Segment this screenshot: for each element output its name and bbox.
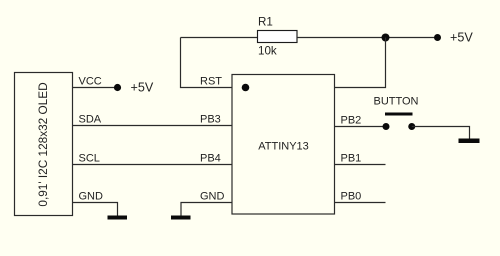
ground symbol (button) bbox=[459, 139, 480, 144]
wire junction down to IC VCC pin bbox=[335, 38, 386, 88]
svg-text:RST: RST bbox=[200, 75, 222, 87]
svg-text:ATTINY13: ATTINY13 bbox=[258, 140, 309, 152]
IC U1 pin-1 marker dot bbox=[242, 84, 250, 92]
wire IC GND pin to ground bbox=[181, 203, 232, 216]
svg-text:SDA: SDA bbox=[79, 113, 102, 125]
svg-text:PB2: PB2 bbox=[341, 114, 362, 126]
svg-text:PB0: PB0 bbox=[341, 190, 362, 202]
+5V terminal dot (top right) bbox=[434, 34, 441, 41]
button S1 actuator bar bbox=[385, 113, 413, 116]
wire PB1 stub bbox=[335, 164, 386, 166]
svg-text:PB1: PB1 bbox=[341, 152, 362, 164]
wire SDA to PB3 bbox=[73, 125, 233, 127]
wire top rail left of R1 bbox=[181, 37, 258, 39]
ground symbol (OLED) bbox=[108, 216, 128, 220]
wire OLED GND to ground bbox=[73, 203, 118, 216]
svg-text:10k: 10k bbox=[258, 44, 277, 57]
ground symbol (IC) bbox=[171, 216, 191, 220]
svg-text:PB4: PB4 bbox=[200, 152, 221, 164]
wire PB0 stub bbox=[335, 202, 386, 204]
svg-text:+5V: +5V bbox=[131, 81, 154, 95]
wire top rail right of R1 to +5V bbox=[297, 37, 438, 39]
svg-text:VCC: VCC bbox=[79, 75, 102, 87]
button S1 left contact dot bbox=[383, 123, 390, 130]
wire PB2 to button left contact bbox=[335, 126, 387, 128]
svg-text:BUTTON: BUTTON bbox=[373, 95, 418, 107]
+5V terminal dot (left) bbox=[114, 84, 121, 91]
wire SCL to PB4 bbox=[73, 164, 233, 166]
wire OLED VCC to +5V terminal bbox=[73, 87, 118, 89]
OLED display module body bbox=[15, 73, 73, 216]
IC U1 ATTINY13 body bbox=[232, 75, 335, 215]
button S1 right contact dot bbox=[408, 123, 415, 130]
svg-text:GND: GND bbox=[200, 190, 225, 202]
svg-text:+5V: +5V bbox=[450, 31, 473, 45]
junction node dot on +5V rail bbox=[382, 34, 390, 42]
resistor R1 body bbox=[258, 31, 298, 43]
svg-text:SCL: SCL bbox=[79, 152, 100, 164]
svg-text:PB3: PB3 bbox=[200, 113, 221, 125]
svg-text:0,91' I2C 128x32 OLED: 0,91' I2C 128x32 OLED bbox=[36, 82, 50, 206]
svg-text:R1: R1 bbox=[258, 15, 273, 28]
wire RST pin to pull-up net bbox=[181, 38, 233, 88]
wire button right contact to ground bbox=[412, 127, 470, 140]
svg-text:GND: GND bbox=[79, 190, 104, 202]
